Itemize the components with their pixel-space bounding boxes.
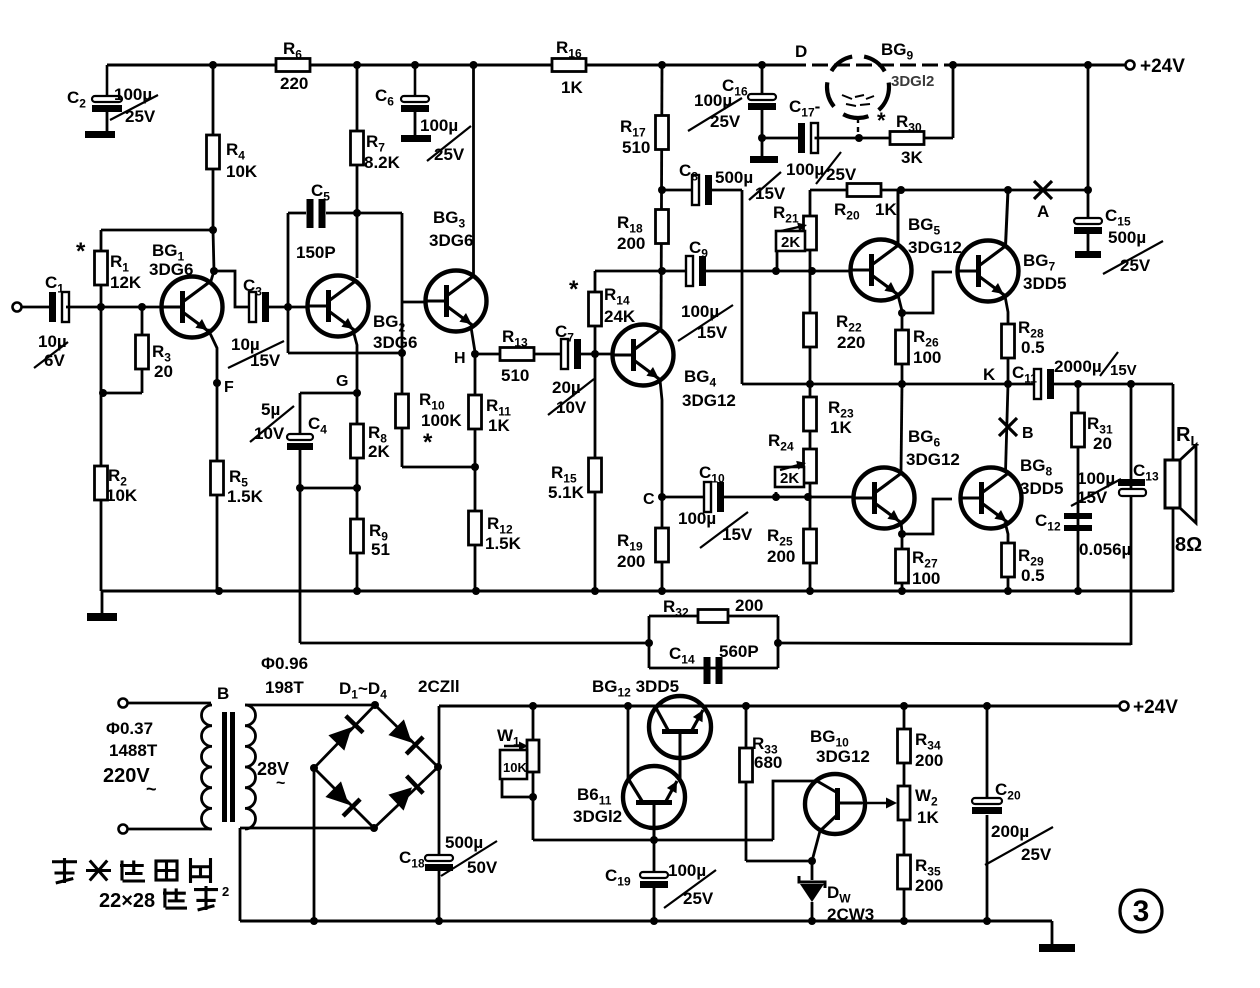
svg-text:510: 510: [622, 138, 650, 157]
svg-text:A: A: [1037, 202, 1049, 221]
svg-text:F: F: [224, 379, 234, 396]
svg-text:2000µ: 2000µ: [1054, 357, 1102, 376]
svg-text:200: 200: [915, 751, 943, 770]
svg-text:3DGl2: 3DGl2: [573, 807, 622, 826]
svg-text:680: 680: [754, 753, 782, 772]
svg-text:3K: 3K: [901, 148, 923, 167]
svg-text:~: ~: [276, 775, 285, 792]
svg-text:200: 200: [915, 876, 943, 895]
svg-text:25V: 25V: [434, 145, 465, 164]
svg-text:200: 200: [735, 596, 763, 615]
svg-text:6V: 6V: [44, 351, 65, 370]
svg-text:1488T: 1488T: [109, 741, 158, 760]
svg-text:*: *: [569, 276, 579, 303]
svg-text:1K: 1K: [917, 808, 939, 827]
svg-text:1.5K: 1.5K: [485, 534, 522, 553]
svg-text:0.5: 0.5: [1021, 566, 1045, 585]
svg-text:198T: 198T: [265, 678, 304, 697]
svg-text:220: 220: [280, 74, 308, 93]
svg-text:10V: 10V: [254, 424, 285, 443]
svg-text:12K: 12K: [110, 273, 142, 292]
svg-text:3DG6: 3DG6: [429, 231, 473, 250]
svg-text:100µ: 100µ: [668, 861, 706, 880]
svg-text:24K: 24K: [604, 307, 636, 326]
svg-text:100K: 100K: [421, 411, 462, 430]
svg-text:10K: 10K: [226, 162, 258, 181]
svg-text:100: 100: [913, 348, 941, 367]
svg-text:+24V: +24V: [1140, 56, 1185, 77]
svg-text:1K: 1K: [830, 418, 852, 437]
svg-text:200µ: 200µ: [991, 822, 1029, 841]
svg-text:3DG12: 3DG12: [682, 391, 736, 410]
svg-text:+24V: +24V: [1133, 697, 1178, 718]
svg-text:15V: 15V: [1110, 362, 1137, 379]
svg-text:220: 220: [837, 333, 865, 352]
svg-text:25V: 25V: [710, 112, 741, 131]
svg-text:1K: 1K: [488, 416, 510, 435]
svg-text:Φ0.96: Φ0.96: [261, 654, 308, 673]
svg-text:20: 20: [154, 362, 173, 381]
svg-text:Φ0.37: Φ0.37: [106, 719, 153, 738]
svg-text:2K: 2K: [781, 234, 800, 251]
svg-text:51: 51: [371, 540, 390, 559]
svg-text:8.2K: 8.2K: [364, 153, 401, 172]
svg-text:15V: 15V: [755, 184, 786, 203]
svg-text:K: K: [983, 365, 996, 384]
svg-text:100µ: 100µ: [420, 116, 458, 135]
svg-text:15V: 15V: [697, 323, 728, 342]
svg-text:100µ: 100µ: [786, 160, 824, 179]
svg-text:1.5K: 1.5K: [227, 487, 264, 506]
svg-text:200: 200: [767, 547, 795, 566]
svg-text:500µ: 500µ: [1108, 228, 1146, 247]
svg-text:3DG6: 3DG6: [373, 333, 417, 352]
svg-text:0.056µ: 0.056µ: [1079, 540, 1131, 559]
svg-text:50V: 50V: [467, 858, 498, 877]
svg-text:B: B: [217, 684, 229, 703]
svg-text:500µ: 500µ: [445, 833, 483, 852]
svg-text:B: B: [1022, 425, 1034, 442]
svg-text:1K: 1K: [875, 200, 897, 219]
svg-text:15V: 15V: [250, 351, 281, 370]
svg-text:3: 3: [1133, 895, 1150, 928]
svg-text:G: G: [336, 373, 348, 390]
svg-text:3DD5: 3DD5: [1020, 479, 1063, 498]
svg-text:*: *: [877, 108, 886, 133]
svg-text:3DG12: 3DG12: [908, 238, 962, 257]
svg-text:560P: 560P: [719, 642, 759, 661]
svg-text:200: 200: [617, 234, 645, 253]
svg-text:10µ: 10µ: [38, 332, 67, 351]
svg-text:3DG12: 3DG12: [906, 450, 960, 469]
svg-text:2CZll: 2CZll: [418, 677, 460, 696]
svg-text:25V: 25V: [683, 889, 714, 908]
svg-text:10K: 10K: [106, 486, 138, 505]
svg-text:C: C: [643, 491, 655, 508]
svg-text:2K: 2K: [780, 470, 799, 487]
svg-text:5µ: 5µ: [261, 400, 280, 419]
svg-text:8Ω: 8Ω: [1175, 534, 1202, 556]
svg-text:15V: 15V: [722, 525, 753, 544]
svg-text:25V: 25V: [125, 107, 156, 126]
svg-text:25V: 25V: [1021, 845, 1052, 864]
svg-text:25V: 25V: [1120, 256, 1151, 275]
svg-text:20: 20: [1093, 434, 1112, 453]
svg-text:150P: 150P: [296, 243, 336, 262]
svg-text:0.5: 0.5: [1021, 338, 1045, 357]
svg-text:2: 2: [222, 884, 229, 899]
svg-text:10K: 10K: [503, 760, 527, 775]
svg-text:100µ: 100µ: [678, 509, 716, 528]
svg-text:510: 510: [501, 366, 529, 385]
svg-text:*: *: [423, 429, 433, 456]
svg-text:H: H: [454, 350, 466, 367]
svg-text:*: *: [76, 238, 86, 265]
svg-text:3DG12: 3DG12: [816, 747, 870, 766]
svg-text:220V: 220V: [103, 765, 150, 787]
svg-text:10V: 10V: [556, 398, 587, 417]
svg-text:D: D: [795, 42, 807, 61]
svg-text:3DD5: 3DD5: [1023, 274, 1066, 293]
svg-text:5.1K: 5.1K: [548, 483, 585, 502]
svg-text:25V: 25V: [826, 165, 857, 184]
svg-text:3DGl2: 3DGl2: [891, 73, 934, 90]
svg-text:1K: 1K: [561, 78, 583, 97]
svg-text:3DG6: 3DG6: [149, 260, 193, 279]
svg-text:200: 200: [617, 552, 645, 571]
svg-text:~: ~: [146, 779, 157, 799]
svg-text:22×28: 22×28: [99, 890, 155, 912]
svg-text:500µ: 500µ: [715, 168, 753, 187]
svg-text:100: 100: [912, 569, 940, 588]
svg-text:2CW3: 2CW3: [827, 905, 874, 924]
svg-text:15V: 15V: [1077, 488, 1108, 507]
svg-text:2K: 2K: [368, 442, 390, 461]
